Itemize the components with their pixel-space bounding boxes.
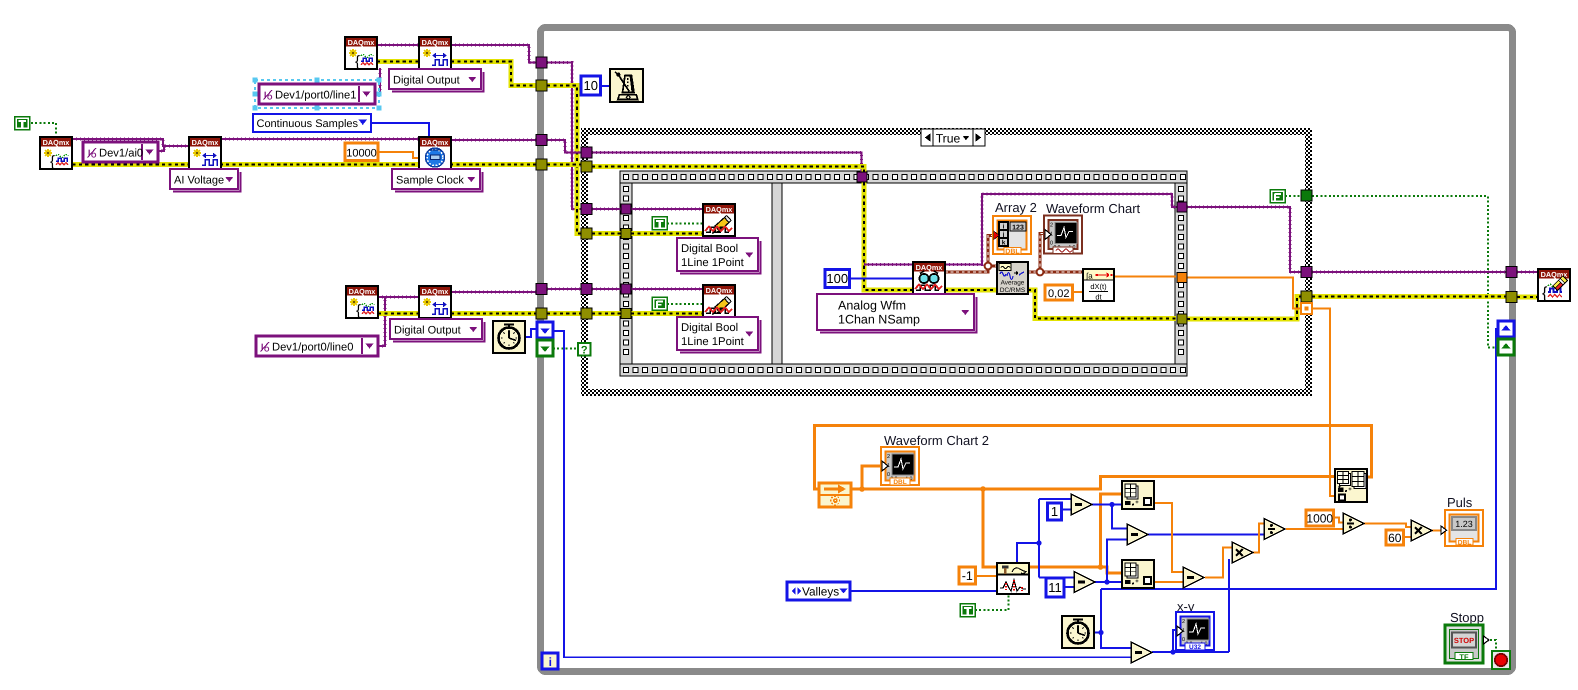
numeric constant 100	[825, 270, 850, 288]
wire U1 out to index1 and S1	[1092, 505, 1127, 529]
matrix size subvi node	[1335, 469, 1367, 502]
case structure border	[581, 128, 1312, 396]
svg-text:AI Voltage: AI Voltage	[174, 175, 224, 187]
wire derivative out to seq tunnel	[1114, 276, 1176, 278]
svg-text:DBL: DBL	[1005, 249, 1020, 256]
tunnel task B seq top	[857, 172, 867, 182]
svg-text:j: j	[1002, 232, 1005, 239]
tunnel error B loop left	[536, 159, 547, 170]
indicator Array 2	[993, 200, 1037, 256]
tunnel task seq right	[1177, 202, 1187, 212]
wire task N1-N2	[72, 139, 189, 146]
svg-text:{: {	[356, 302, 361, 319]
shift register blue right	[1498, 321, 1514, 337]
svg-text:⁺: ⁺	[1135, 501, 1139, 508]
svg-text:TF: TF	[1459, 652, 1469, 661]
shift register green right	[1498, 339, 1514, 355]
wait ms metronome node	[610, 69, 643, 102]
wire divide2 out to multiply2	[1364, 524, 1411, 528]
wire error B inside loop	[547, 162, 581, 167]
DAQmx write node W2	[703, 285, 735, 317]
multiply node M1	[1232, 542, 1253, 563]
svg-text:1.23: 1.23	[1455, 519, 1473, 529]
wire S3 out to x-y chart	[1152, 630, 1229, 652]
while loop border	[541, 28, 1513, 672]
svg-text:2: 2	[887, 454, 890, 460]
svg-text:Digital Bool: Digital Bool	[681, 322, 738, 334]
svg-text:DAQmx: DAQmx	[422, 138, 449, 147]
peak detector node	[997, 563, 1029, 594]
control Stopp stop button	[1445, 610, 1489, 663]
svg-text:100: 100	[826, 271, 848, 286]
DAQmx config node N4 (Digital Output)	[419, 37, 451, 69]
wire waveform read to Array2 and Average	[945, 236, 997, 273]
wire -1 to peak detector	[975, 575, 997, 577]
wire error A inside loop	[547, 86, 581, 234]
wire tickcount2 out	[1094, 632, 1101, 634]
svg-text:60: 60	[1388, 531, 1402, 545]
tunnel task A seq left	[621, 204, 631, 214]
wire enum ContinuousSamples to N5	[371, 123, 429, 136]
svg-text:k: k	[1002, 240, 1006, 247]
tunnel task B loop left	[536, 135, 547, 146]
numeric constant 0,02	[1045, 285, 1073, 300]
wire dbl to case right tunnel	[1187, 278, 1305, 309]
flat sequence frame divider	[772, 183, 782, 364]
wire waveform Average to chart and derivative	[1028, 234, 1083, 273]
wire boolean T to write1	[667, 223, 703, 225]
svg-text:Digital Output: Digital Output	[393, 75, 460, 87]
svg-text:2: 2	[1182, 619, 1185, 625]
wire 1000 to divide2	[1333, 518, 1343, 523]
tunnel error A seq left	[621, 229, 631, 239]
wire multiply out to divide1	[1253, 524, 1264, 553]
numeric constant -1	[959, 567, 976, 584]
subtract node S3	[1131, 642, 1152, 663]
svg-text:O: O	[267, 95, 273, 102]
wire dynamic data main run	[851, 477, 1335, 490]
svg-text:123: 123	[1012, 225, 1024, 232]
tunnel dbl output case right	[1301, 303, 1312, 314]
DAQmx create channel node N3 (DO line1)	[345, 37, 377, 70]
svg-text:DAQmx: DAQmx	[348, 38, 375, 47]
wire 60 to multiply2	[1403, 536, 1413, 538]
svg-text:DAQmx: DAQmx	[706, 286, 733, 295]
tunnel task B case left	[581, 147, 592, 158]
wire error N4 to loop tunnel	[451, 62, 536, 86]
wire shift register i-loop long bottom run	[553, 331, 1131, 657]
svg-text:Puls: Puls	[1447, 495, 1473, 510]
wire boolean T to create-channel N1	[31, 123, 56, 136]
wire 10 to wait-ms	[600, 85, 610, 87]
io constant Dev1/port0/line1 (selected)	[253, 78, 382, 111]
tunnel task C case left	[581, 284, 592, 295]
wire error read to Average	[945, 288, 997, 293]
tunnel task case right	[1301, 267, 1312, 278]
svg-text:DBL: DBL	[1458, 539, 1472, 546]
svg-text:Dev1/ai0: Dev1/ai0	[99, 148, 143, 160]
boolean constant T (main)	[14, 116, 31, 131]
wire index1 element to S2	[1154, 503, 1183, 572]
wire task N3-N4	[377, 44, 419, 46]
svg-text:∫a: ∫a	[1085, 272, 1093, 281]
tunnel task A loop left	[536, 57, 547, 68]
svg-text:10000: 10000	[346, 147, 377, 159]
svg-text:Valleys: Valleys	[802, 585, 839, 599]
junction dots blue	[1036, 502, 1175, 655]
tunnel boolean case right	[1301, 190, 1312, 201]
divide node Q1	[1264, 519, 1285, 540]
tunnel task C seq left	[621, 284, 631, 294]
svg-text:i: i	[1003, 224, 1005, 231]
boolean constant T frame1	[652, 216, 669, 231]
wire error C case to sequence	[592, 311, 703, 316]
wire task to case right tunnel	[1187, 207, 1305, 272]
tunnel error C loop left	[536, 308, 547, 319]
tunnel error loop right	[1506, 292, 1517, 303]
flat sequence border	[620, 171, 1187, 376]
label Digital Bool 1Line1Point (1)	[677, 238, 761, 274]
wire 11 to subtract D1	[1063, 586, 1074, 588]
svg-text:Dev1/port0/line1: Dev1/port0/line1	[275, 90, 356, 102]
wire error case to loop tunnel	[1312, 294, 1506, 299]
wire S1 out to divide	[1148, 534, 1264, 536]
DAQmx config node N7 (Digital Output)	[419, 286, 451, 318]
boolean constant F frame1	[652, 297, 669, 312]
svg-text:⁺: ⁺	[1135, 580, 1139, 587]
DAQmx config node N2 (AI Voltage)	[189, 137, 221, 169]
index array node 1	[1122, 481, 1154, 509]
DAQmx create channel node N6 (DO line0)	[346, 286, 378, 319]
svg-text:2: 2	[1050, 223, 1053, 229]
boolean constant F (right)	[1270, 189, 1287, 204]
numeric constant 10	[581, 76, 601, 95]
ring constant Valleys	[787, 582, 850, 600]
tunnel error A case left	[581, 228, 592, 239]
numeric constant 1000	[1306, 510, 1334, 526]
subtract node U1	[1071, 494, 1092, 515]
wire error N3-N4	[377, 59, 419, 64]
wire multiply2 out to Puls	[1432, 530, 1445, 532]
wire dbl down to matrix subvi	[1312, 309, 1335, 497]
subtract node S1	[1127, 524, 1148, 545]
tunnel error A loop left	[536, 80, 547, 91]
Average DC/RMS express node	[997, 262, 1028, 294]
svg-text:O: O	[91, 153, 97, 160]
multiply node M2	[1411, 520, 1432, 541]
svg-text:STOP: STOP	[1454, 636, 1474, 645]
svg-text:DAQmx: DAQmx	[422, 287, 449, 296]
junction rings waveform	[985, 263, 1044, 276]
tick count node (loop)	[1062, 616, 1094, 648]
svg-text:{: {	[355, 53, 360, 70]
wire error N7 to loop tunnel	[451, 311, 536, 316]
wire error N6-N7	[378, 311, 419, 316]
wire 1 to subtract U1	[1061, 509, 1071, 511]
label Digital Bool 1Line1Point (2)	[677, 317, 761, 353]
wire error A case to sequence	[592, 231, 703, 236]
derivative dX/dt node	[1083, 269, 1114, 302]
boolean constant T (peak)	[960, 603, 977, 618]
svg-text:1: 1	[1051, 504, 1058, 519]
tunnel task C loop left	[536, 284, 547, 295]
convert from dynamic data node	[819, 483, 851, 507]
svg-text:Waveform Chart 2: Waveform Chart 2	[884, 433, 989, 448]
DAQmx write node W1	[703, 204, 735, 236]
svg-text:Array 2: Array 2	[995, 200, 1037, 215]
svg-text:DAQmx: DAQmx	[422, 38, 449, 47]
indicator Puls	[1441, 495, 1483, 546]
wire error B across case and down	[592, 167, 913, 291]
svg-text:DAQmx: DAQmx	[706, 205, 733, 214]
svg-text:0,02: 0,02	[1048, 288, 1069, 300]
wire error Average to seq tunnel	[1028, 290, 1176, 319]
wire task case to loop tunnel	[1312, 271, 1506, 273]
shift register blue left	[537, 322, 553, 338]
loop condition terminal	[1492, 651, 1510, 669]
tunnel task A case left	[581, 204, 592, 215]
svg-text:Sample Clock: Sample Clock	[396, 175, 464, 187]
wire task N6-N7	[378, 296, 419, 298]
label Digital Output (bottom)	[390, 319, 485, 342]
wire divide1 out to divide2	[1286, 528, 1343, 529]
numeric constant 1	[1048, 503, 1062, 520]
tunnel dbl seq right	[1177, 273, 1187, 283]
indicator Waveform Chart 2	[881, 433, 989, 486]
wire task N7 to loop tunnel	[451, 291, 536, 293]
svg-text:1Chan NSamp: 1Chan NSamp	[838, 313, 920, 327]
svg-text:dX(t): dX(t)	[1090, 282, 1107, 291]
numeric constant 60	[1386, 530, 1404, 545]
tunnel error C seq left	[621, 309, 631, 319]
svg-text:⁺: ⁺	[1348, 488, 1352, 495]
DAQmx create channel node N1 (AI)	[40, 137, 72, 170]
svg-text:True: True	[936, 131, 961, 145]
wire error C inside loop	[547, 311, 581, 316]
wire line1 constant to N3	[375, 68, 380, 93]
tunnel task loop right	[1506, 267, 1517, 278]
svg-text:-1: -1	[962, 569, 973, 583]
subtract node D1	[1074, 572, 1095, 593]
tick count node (init)	[493, 321, 525, 353]
wire 0,02 to derivative	[1072, 291, 1083, 293]
svg-text:{: {	[50, 153, 55, 170]
wire error AI chain	[66, 162, 536, 167]
wire peak count circuit	[1017, 499, 1074, 578]
svg-text:DAQmx: DAQmx	[349, 287, 376, 296]
svg-text:DBL: DBL	[893, 479, 906, 486]
wire S2 out to multiply	[1205, 548, 1232, 578]
wire task B emerging to read node	[864, 264, 913, 266]
svg-text:Analog Wfm: Analog Wfm	[838, 299, 906, 313]
numeric constant 10000	[345, 143, 378, 161]
svg-text:{: {	[1542, 285, 1548, 302]
wire boolean T to peak detector	[975, 594, 1009, 610]
wire time vertical to multiply	[1228, 559, 1230, 652]
svg-text:Continuous Samples: Continuous Samples	[257, 118, 359, 130]
tunnel error C case left	[581, 308, 592, 319]
wire boolean F to write2	[667, 303, 703, 305]
DAQmx clear task node	[1538, 269, 1570, 302]
DAQmx timing node N5 (Sample Clock)	[419, 137, 451, 169]
svg-text:DAQmx: DAQmx	[916, 263, 943, 272]
shift register green left	[537, 340, 553, 356]
wire error to case right tunnel	[1187, 297, 1305, 320]
label Analog Wfm 1Chan NSamp	[817, 294, 977, 333]
wire task A case to sequence	[592, 208, 703, 210]
wire tickcount to shift register	[525, 329, 537, 337]
subtract node S2	[1183, 567, 1204, 588]
indicator x-y chart	[1176, 599, 1214, 651]
wire dynamic data top run to matrix subvi	[815, 426, 1372, 490]
wire boolean F to right shift register	[1285, 196, 1498, 348]
indicator Waveform Chart	[1044, 201, 1141, 254]
wire dynamic data to chart2	[862, 466, 881, 489]
svg-text:DAQmx: DAQmx	[43, 138, 70, 147]
wire error to clear node	[1517, 295, 1538, 300]
wire index2 element to S2	[1155, 581, 1183, 583]
tunnel error seq right	[1177, 314, 1187, 324]
svg-text:Average: Average	[1001, 280, 1025, 287]
label AI Voltage	[170, 169, 241, 192]
wire 100 to read node	[849, 278, 913, 280]
svg-text:Digital Bool: Digital Bool	[681, 243, 738, 255]
svg-text:O: O	[264, 347, 270, 354]
wire elapsed time run to shift register	[1101, 329, 1498, 648]
wire peak amplitudes out	[1029, 494, 1122, 573]
wire dynamic data to peak detector	[983, 489, 997, 567]
wire task N2-N5	[221, 138, 419, 140]
wire task to clear node	[1517, 271, 1538, 273]
DAQmx read node R1	[913, 262, 945, 294]
wire 10000 to N5	[377, 152, 419, 158]
iteration terminal i	[542, 653, 558, 669]
wire task C case to sequence	[592, 288, 703, 290]
wire task C inside loop	[547, 288, 581, 290]
svg-text:Waveform Chart: Waveform Chart	[1046, 201, 1141, 216]
svg-text:DC/RMS: DC/RMS	[1000, 287, 1025, 294]
svg-text:i: i	[549, 655, 552, 669]
wire task N4 to loop tunnel	[451, 45, 536, 63]
wire task B inside loop	[547, 140, 581, 153]
io constant Dev1/ai0	[83, 142, 158, 162]
label Sample Clock	[392, 169, 483, 192]
coercion dots red	[994, 232, 1268, 563]
svg-text:DAQmx: DAQmx	[192, 138, 219, 147]
wire Dev1/ai0 to task	[157, 146, 164, 151]
svg-text:1Line 1Point: 1Line 1Point	[681, 336, 745, 348]
index array node 2	[1122, 560, 1154, 588]
svg-text:dt: dt	[1095, 293, 1102, 302]
wire task read to seq tunnel	[945, 194, 1177, 265]
case selector label True	[921, 129, 985, 146]
svg-text:1000: 1000	[1306, 512, 1333, 526]
label Digital Output (top)	[389, 69, 484, 92]
svg-text:11: 11	[1048, 580, 1062, 595]
divide node Q2	[1343, 513, 1364, 534]
svg-text:Digital Output: Digital Output	[394, 325, 461, 337]
tunnel error case right	[1301, 291, 1312, 302]
svg-text:1Line 1Point: 1Line 1Point	[681, 257, 745, 269]
svg-text:Stopp: Stopp	[1450, 610, 1484, 625]
wire stop button to loop condition	[1490, 640, 1496, 652]
svg-text:10: 10	[584, 78, 598, 93]
wire D1 out to index2 and S1	[1095, 540, 1127, 583]
wire line0 constant to N6	[378, 298, 385, 346]
svg-text:U32: U32	[1189, 644, 1201, 651]
numeric constant 11	[1046, 578, 1064, 597]
wire shift register boolean to case selector	[553, 348, 578, 350]
junction dots orange	[859, 486, 1103, 570]
tunnel error B case left	[581, 161, 592, 172]
wire task N5 to loop tunnel	[451, 139, 536, 141]
svg-text:Dev1/port0/line0: Dev1/port0/line0	[272, 342, 353, 354]
enum constant Continuous Samples	[253, 114, 371, 132]
svg-text:?: ?	[581, 345, 588, 357]
wire task A inside loop	[547, 63, 581, 210]
wire task B across case	[592, 153, 862, 179]
case selector terminal	[578, 343, 591, 357]
io constant Dev1/port0/line0	[256, 336, 378, 356]
wire Valleys enum to peak detector	[850, 590, 997, 592]
